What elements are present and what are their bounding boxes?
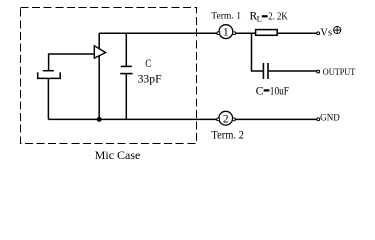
terminal 1 right connector [233,32,236,35]
terminal 2 circle [219,111,233,125]
wire: output branch from resistor junction down to coupling cap [252,33,263,71]
wire: Term.2 to GND terminal [235,118,317,120]
svg-text:Term. 1: Term. 1 [211,12,241,22]
wire: mic capsule to bottom rail [47,78,49,119]
capacitor C 33pF: top plate [121,65,132,67]
junction dot on bottom rail [97,117,102,122]
svg-text:2: 2 [223,113,229,125]
svg-text:L: L [257,13,262,23]
mic capsule element: top plate [43,70,54,72]
svg-text:C: C [256,84,264,98]
capacitor C 33pF: top lead [125,33,127,65]
svg-text:C: C [145,56,151,70]
svg-text:10uF: 10uF [270,84,289,98]
wire: vertical through FET from top rail to bottom rail [98,33,100,119]
capacitor C 33pF: bottom lead [125,74,127,119]
capacitor C=10uF left plate [262,63,264,79]
Vs terminal open dot [317,32,320,35]
svg-text:33pF: 33pF [138,71,162,85]
OUTPUT terminal open square [317,70,320,73]
svg-text:Term. 2: Term. 2 [211,128,244,142]
capacitor C=10uF right plate [267,63,269,79]
wire: resistor to Vs terminal [277,32,317,34]
terminal 1 left connector [217,32,220,35]
GND terminal open dot [317,118,320,121]
mic capsule element: back cup [38,72,61,78]
capacitor C 33pF: bottom plate [120,73,132,75]
FET buffer amplifier triangle [94,46,105,58]
wire: top rail from FET drain corner to Term.1 [99,32,218,34]
terminal 2 right connector [233,118,236,121]
svg-text:OUTPUT: OUTPUT [323,67,356,77]
resistor RL box [256,30,278,36]
wire: mic capsule output to buffer input [49,54,95,70]
wire: Term.1 to resistor [235,32,255,34]
wire: coupling cap to OUTPUT terminal [269,70,317,72]
svg-text:2. 2K: 2. 2K [268,12,288,23]
svg-text:Vs: Vs [320,26,332,38]
mic case dashed enclosure [21,8,197,144]
svg-text:1: 1 [223,27,229,39]
terminal 1 circle [219,25,233,39]
Vs polarity symbol circled plus [334,26,341,33]
wire: bottom rail from capsule to Term.2 [48,118,218,120]
svg-text:GND: GND [320,112,340,122]
terminal 2 left connector [217,118,220,121]
svg-text:Mic Case: Mic Case [95,148,141,161]
